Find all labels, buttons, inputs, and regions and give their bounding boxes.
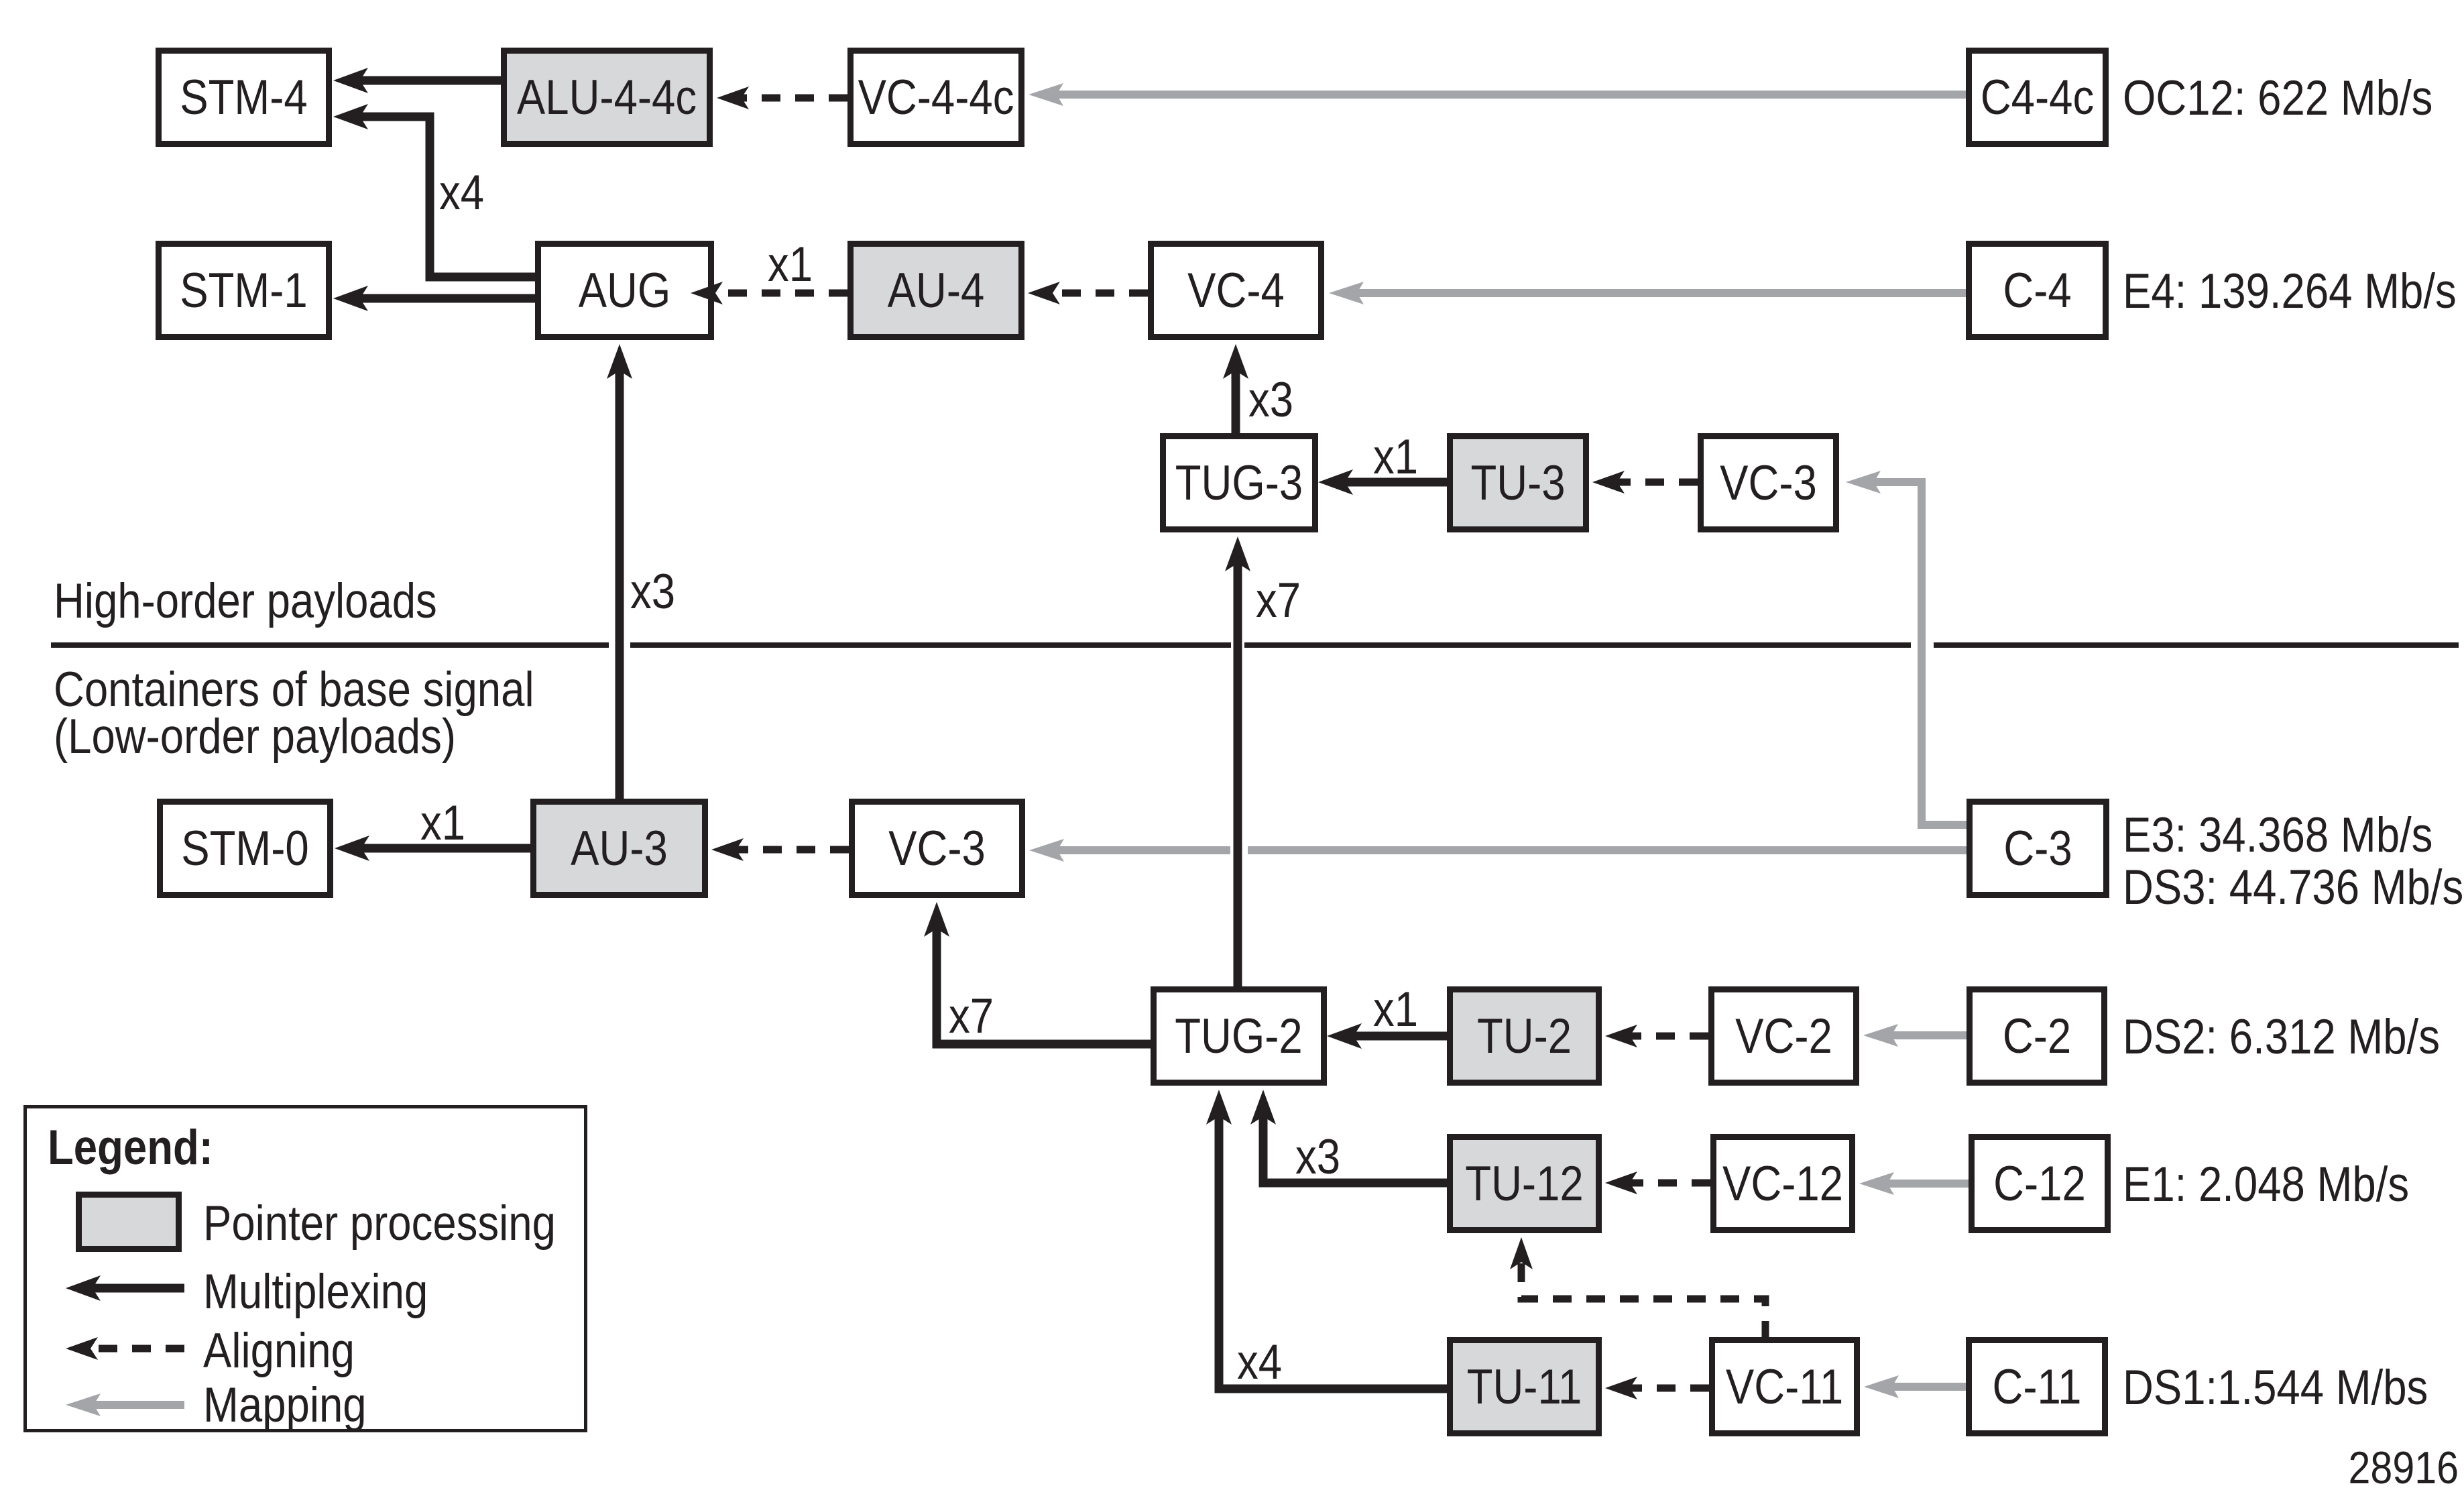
svg-text:TU-3: TU-3 (1470, 456, 1565, 510)
svg-text:C-2: C-2 (2003, 1009, 2071, 1064)
arrow VC-3 to AU-3 (aligning) (711, 838, 849, 861)
divider line between high-order and low-order sections (51, 642, 609, 648)
svg-text:x1: x1 (1373, 430, 1418, 484)
arrow C-4 to VC-4 (mapping) (1329, 282, 1966, 304)
svg-text:Pointer processing: Pointer processing (203, 1196, 556, 1251)
svg-text:x4: x4 (1237, 1335, 1282, 1389)
svg-text:VC-12: VC-12 (1722, 1157, 1843, 1211)
box AU-3 (534, 802, 705, 895)
arrow TUG-3 to VC-4 x3 (multiplexing) (1223, 344, 1248, 433)
arrow C-3 to VC-3 high (mapping elbow) (1846, 471, 1967, 825)
legend box (25, 1107, 586, 1431)
svg-text:x7: x7 (949, 989, 994, 1043)
svg-text:TUG-2: TUG-2 (1175, 1009, 1302, 1064)
svg-text:x3: x3 (1248, 373, 1293, 427)
box VC-3 (1701, 437, 1836, 530)
svg-text:C-3: C-3 (2003, 821, 2072, 876)
box ALU-4-4c (504, 51, 710, 144)
box STM-1 (159, 244, 329, 337)
box VC-11 (1712, 1340, 1857, 1434)
box TUG-2 (1154, 990, 1324, 1083)
box STM-0 (160, 802, 331, 895)
arrow C-2 to VC-2 (mapping) (1863, 1024, 1967, 1047)
arrow VC-11 to TU-11 (aligning) (1605, 1377, 1709, 1399)
svg-text:E3: 34.368 Mb/s: E3: 34.368 Mb/s (2123, 808, 2432, 862)
box TUG-3 (1163, 437, 1315, 530)
arrow AUG to STM-4 x4 (multiplexing elbow) (333, 104, 535, 277)
svg-text:VC-2: VC-2 (1735, 1009, 1832, 1064)
svg-text:Legend:: Legend: (48, 1121, 213, 1175)
box C-2 (1970, 990, 2105, 1083)
svg-text:VC-3: VC-3 (1720, 456, 1817, 510)
box C-12 (1972, 1137, 2108, 1230)
arrow TUG-2 to VC-3 x7 (multiplexing elbow) (924, 902, 1151, 1044)
svg-text:E1: 2.048 Mb/s: E1: 2.048 Mb/s (2123, 1157, 2409, 1212)
svg-text:AU-3: AU-3 (571, 821, 668, 876)
arrow VC-2 to TU-2 (aligning) (1605, 1025, 1708, 1047)
wire C-3 to VC-3 low, segment right of x7 crossing (mapping) (1248, 846, 1967, 854)
svg-text:VC-3: VC-3 (888, 821, 986, 876)
legend multiplexing arrow (66, 1275, 184, 1301)
svg-text:DS1:1.544 M/bs: DS1:1.544 M/bs (2123, 1361, 2428, 1415)
svg-text:Aligning: Aligning (203, 1324, 355, 1378)
arrow TUG-2 to TUG-3 x7 (multiplexing) (1225, 536, 1250, 986)
svg-text:VC-11: VC-11 (1726, 1360, 1843, 1414)
box TU-3 (1450, 437, 1586, 530)
box AU-4 (851, 244, 1022, 337)
svg-text:DS3: 44.736 Mb/s: DS3: 44.736 Mb/s (2123, 860, 2463, 915)
arrow AU-3 to STM-0 x1 (multiplexing) (335, 836, 530, 861)
arrow C-3 to VC-3 low, segment left of x7 crossing (mapping) (1029, 839, 1230, 862)
svg-text:x1: x1 (768, 237, 813, 292)
svg-text:x3: x3 (1295, 1130, 1340, 1184)
box VC-12 (1714, 1137, 1853, 1230)
arrow VC-11 to TU-12 (aligning elbow) (1510, 1237, 1765, 1340)
legend mapping arrow (66, 1393, 184, 1416)
arrow AUG to STM-1 (multiplexing) (333, 286, 535, 311)
arrow VC-4-4c to ALU-4-4c (aligning) (717, 87, 847, 109)
svg-text:AU-4: AU-4 (888, 264, 985, 318)
svg-text:TU-12: TU-12 (1465, 1157, 1583, 1211)
box VC-4 (1151, 244, 1322, 337)
arrow AU-3 to AUG x3 (multiplexing) (607, 344, 632, 799)
svg-text:AUG: AUG (579, 264, 671, 318)
svg-text:VC-4: VC-4 (1187, 264, 1285, 318)
arrow ALU-4-4c to STM-4 (multiplexing) (333, 68, 501, 93)
svg-text:OC12: 622 Mb/s: OC12: 622 Mb/s (2123, 71, 2432, 125)
box VC-3b (852, 802, 1022, 895)
svg-text:TU-11: TU-11 (1467, 1360, 1582, 1414)
svg-text:C4-4c: C4-4c (1981, 70, 2094, 125)
arrow TU-11 to TUG-2 x4 (multiplexing elbow) (1206, 1090, 1447, 1389)
svg-text:x1: x1 (420, 796, 465, 850)
svg-text:STM-4: STM-4 (180, 70, 307, 125)
arrow C-12 to VC-12 (mapping) (1859, 1172, 1969, 1195)
svg-text:STM-1: STM-1 (180, 264, 307, 318)
arrow VC-12 to TU-12 (aligning) (1605, 1171, 1710, 1194)
box C-3 (1970, 802, 2107, 895)
svg-text:DS2: 6.312 Mb/s: DS2: 6.312 Mb/s (2123, 1010, 2440, 1064)
svg-text:STM-0: STM-0 (181, 821, 308, 876)
svg-text:E4: 139.264 Mb/s: E4: 139.264 Mb/s (2123, 264, 2457, 319)
svg-text:Multiplexing: Multiplexing (203, 1265, 428, 1319)
box TU-2 (1450, 990, 1599, 1083)
svg-text:x7: x7 (1256, 573, 1301, 628)
svg-text:C-11: C-11 (1993, 1360, 2082, 1414)
svg-text:x4: x4 (439, 166, 484, 220)
arrow TU-12 to TUG-2 x3 (multiplexing elbow) (1250, 1090, 1447, 1183)
svg-text:C-12: C-12 (1993, 1157, 2086, 1211)
box STM-4 (159, 51, 329, 144)
box VC-2 (1712, 990, 1857, 1083)
box AUG (538, 244, 711, 337)
box TU-12 (1450, 1137, 1599, 1230)
svg-text:C-4: C-4 (2003, 264, 2071, 318)
box C-4 (1969, 244, 2106, 337)
svg-text:VC-4-4c: VC-4-4c (858, 70, 1014, 125)
arrow TU-2 to TUG-2 x1 (multiplexing) (1327, 1023, 1447, 1049)
arrow AU-4 to AUG x1 (aligning) (691, 282, 847, 304)
svg-text:TU-2: TU-2 (1477, 1009, 1572, 1064)
arrow C4-4c to VC-4-4c (mapping) (1029, 83, 1966, 106)
svg-text:x3: x3 (630, 565, 675, 619)
box VC-4-4c (851, 51, 1022, 144)
svg-text:TUG-3: TUG-3 (1175, 456, 1303, 510)
box TU-11 (1450, 1340, 1599, 1434)
box C-11 (1969, 1340, 2105, 1434)
svg-text:ALU-4-4c: ALU-4-4c (517, 70, 697, 125)
box C4-4c (1969, 51, 2106, 144)
svg-text:(Low-order payloads): (Low-order payloads) (54, 709, 456, 764)
svg-text:28916: 28916 (2349, 1442, 2459, 1490)
svg-text:x1: x1 (1373, 982, 1418, 1037)
arrow TU-3 to TUG-3 x1 (multiplexing) (1318, 469, 1447, 495)
arrow C-11 to VC-11 (mapping) (1864, 1375, 1966, 1398)
svg-text:High-order payloads: High-order payloads (54, 574, 437, 628)
svg-text:Mapping: Mapping (203, 1378, 367, 1432)
arrow VC-3 to TU-3 (aligning) (1592, 471, 1698, 494)
arrow VC-4 to AU-4 (aligning) (1028, 282, 1148, 304)
legend pointer-processing swatch (79, 1195, 179, 1249)
svg-text:Containers of base signal: Containers of base signal (54, 663, 534, 717)
legend aligning arrow (66, 1337, 184, 1360)
